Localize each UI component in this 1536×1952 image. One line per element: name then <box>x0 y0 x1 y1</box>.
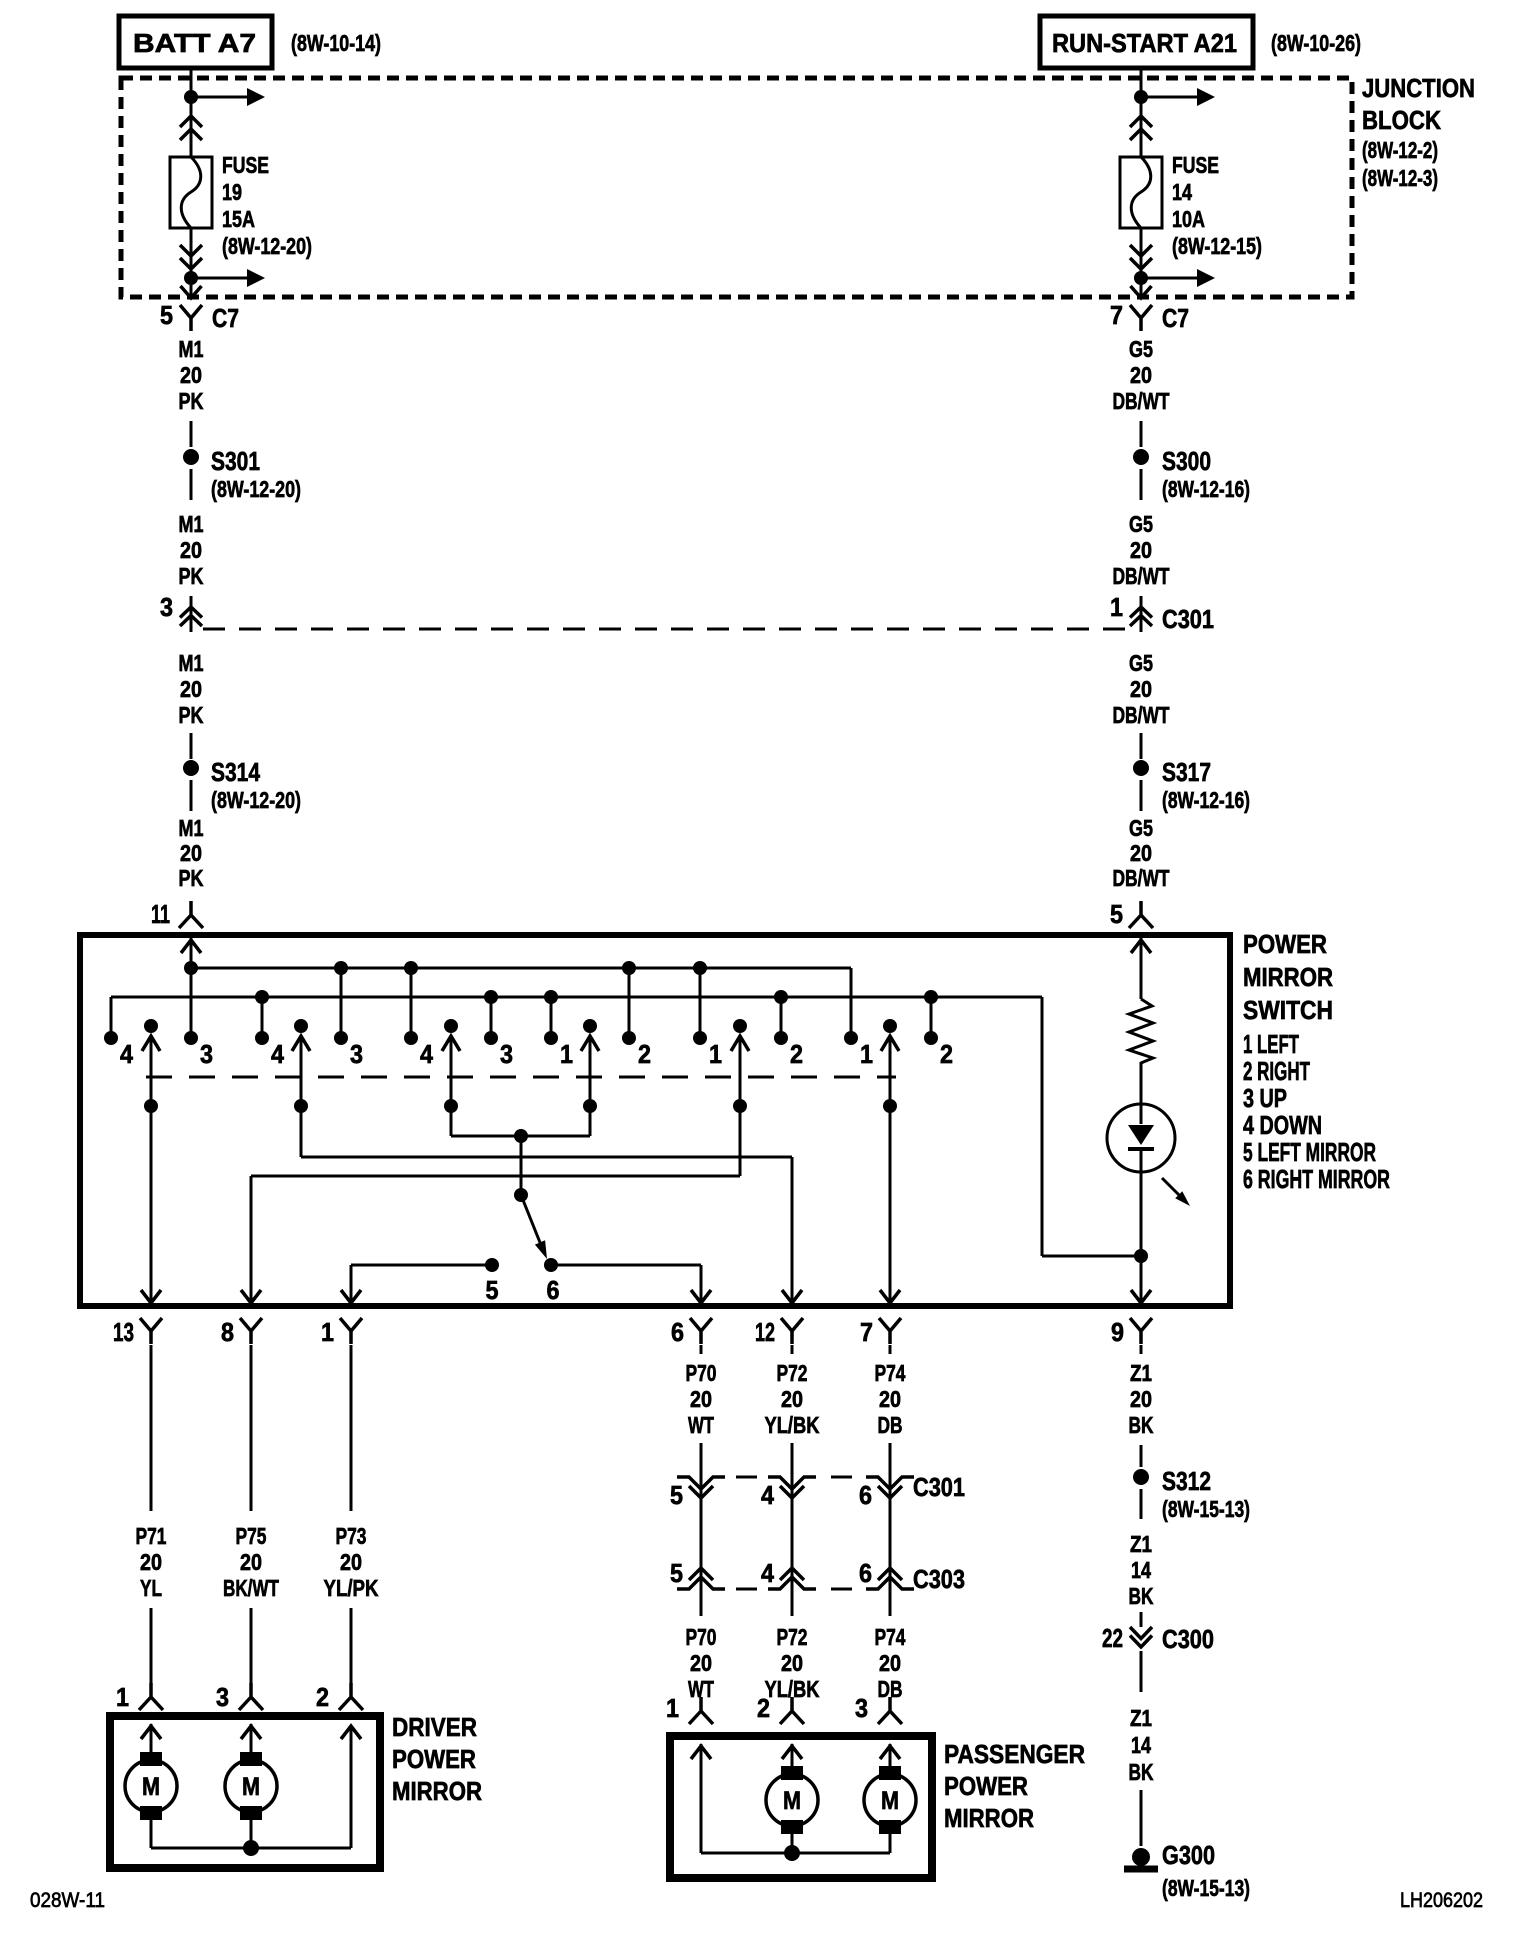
passenger motor B <box>879 1766 901 1780</box>
wire P75 upper <box>250 1345 253 1511</box>
wire driver pin3 to motor B <box>250 1724 253 1756</box>
bus B2 horizontal <box>111 996 1042 999</box>
wire C303 down p4 <box>791 1591 794 1616</box>
wire LED to pin 9 <box>1140 1172 1143 1303</box>
wire P75 lower <box>250 1608 253 1689</box>
svg-text:14: 14 <box>1172 179 1192 205</box>
svg-text:12: 12 <box>755 1317 775 1347</box>
wire contact5 to pin 1 <box>351 1264 492 1267</box>
passenger return junction dot <box>784 1845 800 1861</box>
exit arrow pin 9 <box>1131 1290 1151 1303</box>
svg-text:1: 1 <box>560 1039 573 1069</box>
wire P70 upper <box>700 1345 703 1354</box>
svg-text:C303: C303 <box>913 1564 965 1594</box>
svg-text:4: 4 <box>120 1039 133 1069</box>
svg-text:C7: C7 <box>212 303 239 333</box>
svg-text:P73: P73 <box>336 1523 367 1549</box>
fuse F19 <box>170 157 212 228</box>
svg-text:G300: G300 <box>1162 1840 1215 1870</box>
wire P71 upper <box>150 1345 153 1511</box>
wire pin11 to contact 3a <box>190 938 193 1038</box>
connector C303 dashed link <box>736 1588 757 1591</box>
svg-text:2: 2 <box>790 1039 803 1069</box>
svg-text:(8W-12-16): (8W-12-16) <box>1162 476 1250 502</box>
wire BATT A7 to fuse 19 <box>190 68 193 157</box>
svg-text:C301: C301 <box>1162 604 1214 634</box>
switch contact 4 at x=411 <box>404 1031 418 1045</box>
wire S314 down <box>190 780 193 811</box>
wire wiper5 to pin 8 <box>739 1106 742 1176</box>
svg-text:G5: G5 <box>1129 511 1153 537</box>
svg-text:5: 5 <box>1110 899 1123 929</box>
svg-text:2: 2 <box>940 1039 953 1069</box>
dashed connector line C301 <box>203 628 1129 631</box>
svg-text:6 RIGHT MIRROR: 6 RIGHT MIRROR <box>1243 1164 1390 1194</box>
svg-text:PK: PK <box>179 702 204 728</box>
svg-text:POWER: POWER <box>944 1771 1028 1801</box>
svg-text:22: 22 <box>1102 1623 1123 1653</box>
svg-text:BATT A7: BATT A7 <box>133 28 256 58</box>
svg-text:5: 5 <box>670 1480 683 1510</box>
connector marks below fuse 19 <box>180 245 202 269</box>
svg-text:10A: 10A <box>1172 206 1205 232</box>
svg-text:(8W-12-3): (8W-12-3) <box>1362 165 1438 191</box>
wire fuse 19 to C7 <box>190 228 193 296</box>
contact 3b stub <box>340 968 343 1034</box>
svg-text:1 LEFT: 1 LEFT <box>1243 1029 1299 1059</box>
wire C303 down p5 <box>700 1591 703 1616</box>
svg-text:PK: PK <box>179 388 204 414</box>
svg-text:4: 4 <box>271 1039 284 1069</box>
svg-text:P72: P72 <box>777 1624 808 1650</box>
exit arrow pin 7 <box>880 1290 900 1303</box>
wire U to selector pivot <box>520 1136 523 1195</box>
svg-text:6: 6 <box>859 1558 872 1588</box>
svg-text:BK: BK <box>1129 1583 1154 1609</box>
svg-text:8: 8 <box>221 1317 234 1347</box>
svg-text:(8W-12-16): (8W-12-16) <box>1162 787 1250 813</box>
switch wiper 2 pole <box>294 1019 308 1033</box>
svg-text:P75: P75 <box>236 1523 267 1549</box>
svg-text:1: 1 <box>321 1317 334 1347</box>
svg-text:14: 14 <box>1131 1557 1151 1583</box>
svg-text:6: 6 <box>671 1317 684 1347</box>
svg-text:M1: M1 <box>179 336 204 362</box>
bus B2 right leg <box>1041 997 1044 1256</box>
svg-text:BK: BK <box>1129 1759 1154 1785</box>
junction dot U center <box>514 1129 528 1143</box>
switch contact 3 at x=191 <box>184 1031 198 1045</box>
wire P70 to C301 <box>700 1443 703 1502</box>
wire passenger pin3 to motor B <box>889 1744 892 1770</box>
svg-text:2: 2 <box>316 1682 329 1712</box>
svg-text:20: 20 <box>879 1650 901 1676</box>
svg-text:Z1: Z1 <box>1130 1531 1152 1557</box>
illumination LED <box>1107 1104 1175 1172</box>
svg-text:BLOCK: BLOCK <box>1362 105 1441 135</box>
exit arrow pin 1 <box>341 1290 361 1303</box>
svg-text:S301: S301 <box>211 446 260 476</box>
switch wiper 5 pole <box>733 1019 747 1033</box>
svg-text:20: 20 <box>180 840 202 866</box>
svg-text:20: 20 <box>690 1650 712 1676</box>
svg-text:DB: DB <box>878 1412 903 1438</box>
wire S317 down <box>1140 780 1143 811</box>
wire passenger pin1 to bus <box>700 1744 703 1853</box>
svg-text:4: 4 <box>420 1039 433 1069</box>
svg-text:M: M <box>142 1773 160 1801</box>
wire to passenger pin1 <box>700 1703 703 1711</box>
svg-text:7: 7 <box>860 1317 873 1347</box>
svg-text:M1: M1 <box>179 650 204 676</box>
wire Z1 from pin 9 <box>1140 1345 1143 1354</box>
svg-text:028W-11: 028W-11 <box>30 1889 105 1912</box>
svg-text:S300: S300 <box>1162 446 1211 476</box>
wire P74 to C301 <box>889 1443 892 1502</box>
svg-text:P70: P70 <box>686 1360 717 1386</box>
contact 3c stub <box>490 997 493 1034</box>
wire wiper3+4 common U <box>450 1106 453 1136</box>
switch wiper 1 pole <box>144 1019 158 1033</box>
svg-text:M: M <box>881 1787 899 1815</box>
svg-text:DB/WT: DB/WT <box>1113 865 1170 891</box>
entry arrow passenger pin 1 <box>691 1746 711 1759</box>
splice S314 <box>183 760 199 776</box>
wire to S314 <box>190 733 193 759</box>
arrow run-start feed <box>1141 96 1198 99</box>
driver mirror return bus <box>150 1820 153 1848</box>
svg-text:20: 20 <box>1130 676 1152 702</box>
svg-text:FUSE: FUSE <box>1172 152 1219 178</box>
splice S317 <box>1133 760 1149 776</box>
svg-text:4: 4 <box>761 1558 774 1588</box>
svg-text:20: 20 <box>1130 362 1152 388</box>
junction dot run-start feed <box>1134 90 1148 104</box>
wire passenger pin2 to motor A <box>791 1744 794 1770</box>
switch contact 1 at x=851 <box>844 1031 858 1045</box>
arrow below fuse 19 <box>191 277 248 280</box>
svg-text:Z1: Z1 <box>1130 1705 1152 1731</box>
svg-text:BK/WT: BK/WT <box>223 1575 279 1601</box>
svg-text:6: 6 <box>547 1275 560 1305</box>
entry arrow pin 11 <box>181 940 201 953</box>
svg-text:LH206202: LH206202 <box>1400 1889 1483 1912</box>
svg-text:20: 20 <box>879 1386 901 1412</box>
contact 4b stub <box>261 997 264 1034</box>
svg-text:20: 20 <box>1130 1386 1152 1412</box>
svg-text:11: 11 <box>151 899 170 929</box>
svg-text:1: 1 <box>116 1682 129 1712</box>
svg-text:G5: G5 <box>1129 815 1153 841</box>
exit arrow pin 12 <box>782 1290 802 1303</box>
svg-text:3: 3 <box>500 1039 513 1069</box>
contact 2b stub <box>780 997 783 1034</box>
selector pivot dot <box>514 1188 528 1202</box>
switch contact 3 at x=491 <box>484 1031 498 1045</box>
contact 1a stub <box>550 997 553 1034</box>
svg-text:1: 1 <box>860 1039 873 1069</box>
svg-text:PASSENGER: PASSENGER <box>944 1739 1085 1769</box>
switch contact 1 at x=700 <box>693 1031 707 1045</box>
svg-text:M: M <box>242 1773 260 1801</box>
svg-text:MIRROR: MIRROR <box>392 1776 482 1806</box>
svg-text:2 RIGHT: 2 RIGHT <box>1243 1056 1310 1086</box>
svg-text:MIRROR: MIRROR <box>1243 962 1333 992</box>
connector C7 left half <box>180 305 202 331</box>
driver return junction dot <box>243 1840 259 1856</box>
entry arrow passenger pin 2 <box>782 1746 802 1759</box>
driver motor B <box>240 1752 262 1766</box>
svg-text:YL: YL <box>140 1575 162 1601</box>
selector contact 6 <box>544 1258 558 1272</box>
contact 2a stub <box>628 968 631 1034</box>
bus B2 junction dots <box>255 990 269 1004</box>
switch wiper 6 pole <box>883 1019 897 1033</box>
svg-text:P70: P70 <box>686 1624 717 1650</box>
svg-text:5: 5 <box>160 300 173 330</box>
wire wiper2 to pin 12 <box>300 1106 303 1157</box>
junction dot batt feed <box>184 90 198 104</box>
connector C301 dashed link <box>736 1476 757 1479</box>
wire RUN-START to fuse 14 <box>1140 68 1143 157</box>
passenger mirror return bus <box>791 1834 794 1853</box>
driver power mirror box <box>110 1716 380 1868</box>
ground G300 <box>1132 1848 1150 1866</box>
svg-text:BK: BK <box>1129 1412 1154 1438</box>
svg-text:M1: M1 <box>179 815 204 841</box>
contact 4a stub <box>110 997 113 1034</box>
svg-text:(8W-10-14): (8W-10-14) <box>291 30 381 56</box>
wire driver pin1 to motor A <box>150 1724 153 1756</box>
svg-text:4: 4 <box>761 1480 774 1510</box>
svg-text:(8W-12-20): (8W-12-20) <box>211 787 301 813</box>
svg-text:20: 20 <box>140 1549 162 1575</box>
svg-text:RUN-START A21: RUN-START A21 <box>1052 28 1237 58</box>
svg-text:YL/PK: YL/PK <box>324 1575 379 1601</box>
svg-text:2: 2 <box>638 1039 651 1069</box>
svg-text:YL/BK: YL/BK <box>765 1412 820 1438</box>
svg-text:(8W-10-26): (8W-10-26) <box>1271 30 1361 56</box>
svg-text:3: 3 <box>350 1039 363 1069</box>
contact 4c stub <box>410 968 413 1034</box>
switch wiper 3 pole <box>444 1019 458 1033</box>
exit arrow pin 8 <box>241 1290 261 1303</box>
svg-text:(8W-12-15): (8W-12-15) <box>1172 233 1262 259</box>
svg-text:20: 20 <box>1130 840 1152 866</box>
svg-text:1: 1 <box>709 1039 722 1069</box>
svg-text:20: 20 <box>180 676 202 702</box>
svg-text:P74: P74 <box>875 1624 906 1650</box>
wire P73 lower <box>350 1608 353 1689</box>
arrow below fuse 14 <box>1141 277 1198 280</box>
svg-text:1: 1 <box>1110 592 1123 622</box>
connector C301 inline right <box>1140 596 1143 632</box>
svg-text:P71: P71 <box>136 1523 167 1549</box>
wire P72 upper <box>791 1345 794 1354</box>
svg-text:DRIVER: DRIVER <box>392 1712 477 1742</box>
junction dot LED return <box>1134 1249 1148 1263</box>
wire C301 to C303 p6 <box>889 1494 892 1591</box>
wire C300 down <box>1140 1651 1143 1692</box>
svg-text:14: 14 <box>1131 1732 1151 1758</box>
svg-text:20: 20 <box>781 1386 803 1412</box>
switch contact 2 at x=781 <box>774 1031 788 1045</box>
svg-text:3: 3 <box>855 1693 868 1723</box>
svg-text:2: 2 <box>757 1693 770 1723</box>
svg-text:C7: C7 <box>1162 303 1189 333</box>
splice S301 <box>183 449 199 465</box>
entry arrow driver pin 3 <box>241 1726 261 1739</box>
svg-text:3 UP: 3 UP <box>1243 1083 1287 1113</box>
contact 1b stub <box>699 968 702 1034</box>
connector C301 inline left <box>190 596 193 632</box>
svg-text:P72: P72 <box>777 1360 808 1386</box>
svg-text:(8W-12-20): (8W-12-20) <box>222 233 312 259</box>
switch contact 1 at x=551 <box>544 1031 558 1045</box>
switch contact 4 at x=262 <box>255 1031 269 1045</box>
svg-text:20: 20 <box>180 537 202 563</box>
splice S300 <box>1133 449 1149 465</box>
svg-text:9: 9 <box>1111 1317 1124 1347</box>
illumination resistor <box>1129 999 1153 1066</box>
svg-text:15A: 15A <box>222 206 255 232</box>
svg-text:19: 19 <box>222 179 242 205</box>
svg-text:5: 5 <box>670 1558 683 1588</box>
switch contact 4 at x=111 <box>104 1031 118 1045</box>
wire to ground G300 <box>1140 1790 1143 1846</box>
svg-text:PK: PK <box>179 865 204 891</box>
svg-text:20: 20 <box>180 362 202 388</box>
switch wiper 4 pole <box>583 1019 597 1033</box>
entry arrow driver pin 2 <box>341 1726 361 1739</box>
svg-text:POWER: POWER <box>1243 929 1327 959</box>
svg-text:5: 5 <box>486 1275 499 1305</box>
wire P71 lower <box>150 1608 153 1689</box>
wire C7 to S301 <box>190 421 193 447</box>
wire to passenger pin3 <box>889 1703 892 1711</box>
wire pin5 to resistor <box>1140 938 1143 999</box>
svg-text:3: 3 <box>160 592 173 622</box>
svg-text:PK: PK <box>179 563 204 589</box>
svg-text:1: 1 <box>666 1693 679 1723</box>
wire Z1 to S312 <box>1140 1445 1143 1467</box>
svg-text:6: 6 <box>859 1480 872 1510</box>
svg-text:POWER: POWER <box>392 1744 476 1774</box>
connector half at switch pin 5 <box>1129 901 1153 928</box>
svg-text:M1: M1 <box>179 511 204 537</box>
svg-text:M: M <box>783 1787 801 1815</box>
svg-text:13: 13 <box>113 1317 134 1347</box>
connector C7 right half <box>1130 305 1152 331</box>
wire C301 to C303 p4 <box>791 1494 794 1591</box>
switch contact 2 at x=629 <box>622 1031 636 1045</box>
connector marks at junction block exit right <box>1131 286 1152 298</box>
svg-text:S312: S312 <box>1162 1466 1211 1496</box>
svg-text:C300: C300 <box>1162 1624 1214 1654</box>
svg-text:S317: S317 <box>1162 757 1211 787</box>
svg-text:Z1: Z1 <box>1130 1360 1152 1386</box>
driver motor A <box>140 1752 162 1766</box>
svg-text:(8W-12-2): (8W-12-2) <box>1362 137 1438 163</box>
svg-text:MIRROR: MIRROR <box>944 1803 1034 1833</box>
svg-text:3: 3 <box>200 1039 213 1069</box>
fuse F14 <box>1120 157 1162 228</box>
LED emission arrow <box>1162 1178 1180 1196</box>
svg-text:(8W-15-13): (8W-15-13) <box>1162 1496 1250 1522</box>
junction dot below fuse 14 <box>1134 271 1148 285</box>
svg-text:DB/WT: DB/WT <box>1113 563 1170 589</box>
contact 1c stub <box>850 968 853 1034</box>
bus B1 horizontal <box>191 967 851 970</box>
svg-text:C301: C301 <box>913 1472 965 1502</box>
selector arm to contact 6 <box>521 1195 541 1245</box>
junction dot below fuse 19 <box>184 271 198 285</box>
wire C7 to S300 <box>1140 421 1143 447</box>
splice S312 <box>1133 1469 1149 1485</box>
bus B1 junction dots <box>184 961 198 975</box>
svg-text:FUSE: FUSE <box>222 152 269 178</box>
connector marks below fuse 14 <box>1130 245 1152 269</box>
contact 2c stub <box>930 997 933 1034</box>
entry arrow driver pin 1 <box>141 1726 161 1739</box>
wire P73 upper <box>350 1345 353 1511</box>
svg-text:G5: G5 <box>1129 336 1153 362</box>
svg-text:(8W-15-13): (8W-15-13) <box>1162 1875 1250 1901</box>
wire wiper1 to pin 13 <box>150 1106 153 1303</box>
svg-text:20: 20 <box>340 1549 362 1575</box>
wire C301 to C303 p5 <box>700 1494 703 1591</box>
wire P74 upper <box>889 1345 892 1354</box>
passenger power mirror box <box>670 1736 932 1878</box>
svg-text:(8W-12-20): (8W-12-20) <box>211 476 301 502</box>
exit arrow pin 6 <box>691 1290 711 1303</box>
exit arrow pin 13 <box>141 1290 161 1303</box>
connector marks at junction block exit left <box>181 286 202 298</box>
svg-text:SWITCH: SWITCH <box>1243 995 1333 1025</box>
switch contact 2 at x=931 <box>924 1031 938 1045</box>
wire fuse 14 to C7 <box>1140 228 1143 296</box>
svg-text:20: 20 <box>690 1386 712 1412</box>
svg-text:G5: G5 <box>1129 650 1153 676</box>
wire C303 down p6 <box>889 1591 892 1616</box>
svg-text:DB/WT: DB/WT <box>1113 702 1170 728</box>
svg-text:WT: WT <box>688 1412 714 1438</box>
junction block dashed boundary <box>121 78 1352 297</box>
wire wiper6 to pin 7 <box>889 1106 892 1303</box>
wire S312 down <box>1140 1489 1143 1519</box>
wire resistor to LED <box>1140 1066 1143 1104</box>
svg-text:DB/WT: DB/WT <box>1113 388 1170 414</box>
svg-text:S314: S314 <box>211 757 260 787</box>
passenger motor A <box>781 1766 803 1780</box>
wire S300 down <box>1140 469 1143 500</box>
selector contact 5 <box>485 1258 499 1272</box>
node BATT A7 feed box <box>119 16 272 68</box>
svg-text:20: 20 <box>1130 537 1152 563</box>
svg-text:20: 20 <box>781 1650 803 1676</box>
node RUN-START A21 feed box <box>1040 16 1253 68</box>
connector marks above fuse 14 <box>1130 116 1152 140</box>
svg-text:P74: P74 <box>875 1360 906 1386</box>
wire S301 down <box>190 469 193 500</box>
arrow batt feed to other circuits <box>191 96 248 99</box>
connector marks above fuse 19 <box>180 116 202 140</box>
svg-text:JUNCTION: JUNCTION <box>1362 73 1475 103</box>
wire P72 to C301 <box>791 1443 794 1502</box>
wire contact6 to pin 6 <box>551 1264 701 1267</box>
mechanical link dashed line <box>146 1076 896 1079</box>
power mirror switch U-box <box>80 935 1230 1306</box>
